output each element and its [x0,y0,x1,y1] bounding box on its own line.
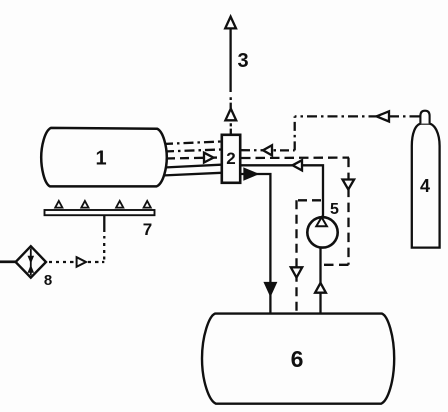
wire: solid line 1 from tank 1 to valve 2 [164,165,221,168]
svg-text:3: 3 [237,50,248,72]
wire: dashed line from valve 2 right going to pump outlet loop [241,156,349,159]
svg-text:6: 6 [291,346,304,372]
arrow: filled right arrow at valve 2 outlet [245,169,257,179]
wire: stub line at left edge into filter 8 [0,260,16,263]
arrow: open up arrow lower on vent line 3 [225,109,236,121]
wire: dash-dot vertical riser of gas line [294,116,296,150]
arrow: open up arrow 4 above bar 7 [144,201,151,208]
svg-text:8: 8 [44,272,52,289]
wire: dash-dot from filter 8 to riser to bar 7 [49,261,104,263]
wire: pump suction line to tank 6 [319,248,321,313]
wire: solid feed line from valve 2 down to tank 6 [241,174,270,313]
tank 1 [41,128,167,186]
wire: dashed line from tank 1 to valve 2 [166,158,221,159]
tank 6 [202,314,394,404]
wire: dashed horizontal into pump bottom [321,264,349,266]
arrow: open right arrow on filter 8 outlet line [77,257,86,267]
svg-text:5: 5 [330,201,339,218]
wire: vent solid vertical line 3 [229,28,231,93]
arrow: open down arrow on dashed drop [343,180,355,190]
wire: solid line 2 from tank 1 to valve 2 [162,173,221,176]
svg-text:2: 2 [226,149,235,168]
svg-text:7: 7 [143,220,152,239]
wire: vertical line from bar 7 down (solid then dots) [103,216,105,260]
arrow: open right arrow on dashed tank1-valve2 line [204,153,214,163]
wire: dash-dot from valve 2 right toward gas line [241,149,295,151]
arrow: filled down arrow inside filter 8 [30,249,32,263]
filter 8 (diamond) [16,246,46,277]
wire: dash-dot line 2 from tank 1 to valve 2 [164,150,221,152]
arrow: open up arrow 1 above bar 7 [55,201,62,208]
arrow: open up arrow 3 above bar 7 [116,201,123,208]
arrow: open left arrow on dash-dot gas line near valve 2 [263,145,272,155]
arrow: open up arrow on pump suction line [315,283,326,293]
arrow: open up arrow at top of vent line 3 [225,17,236,29]
svg-text:4: 4 [420,176,430,196]
wire: vent stem and dot between arrow and solid line [230,97,232,108]
arrow: open left arrow on gas line near cylinder 4 [377,111,390,121]
valve block 2 [222,135,240,183]
gas cylinder 4 [412,124,440,248]
arrow: open down arrow on dashed return line [291,267,302,277]
wire: dash-dot line 1 from tank 1 to valve 2 [163,142,221,145]
arrow: open up arrow 2 above bar 7 [81,201,88,208]
arrow: open left arrow on valve2-pump line [293,160,303,170]
gas cylinder 4 neck [420,111,429,124]
wire: solid line from valve 2 right to pump drop [241,165,323,218]
arrow: open up arrow inside pump 5 [316,217,327,226]
wire: dashed line from pump top-left [297,199,322,201]
wire: dashed vertical drop at x=349 [347,158,349,265]
wire: vent dotted segment above valve 2 [230,123,232,134]
wire: dashed vertical into tank 6 [295,200,297,313]
arrow: filled down arrow entering tank 6 [265,283,275,295]
wire: dash-dot horizontal gas line to cylinder 4 [295,115,420,117]
pump 5 [307,217,337,247]
svg-text:1: 1 [95,148,106,170]
spray bar 7 [45,210,155,215]
arrow: filled up arrow inside filter 8 [30,263,32,276]
